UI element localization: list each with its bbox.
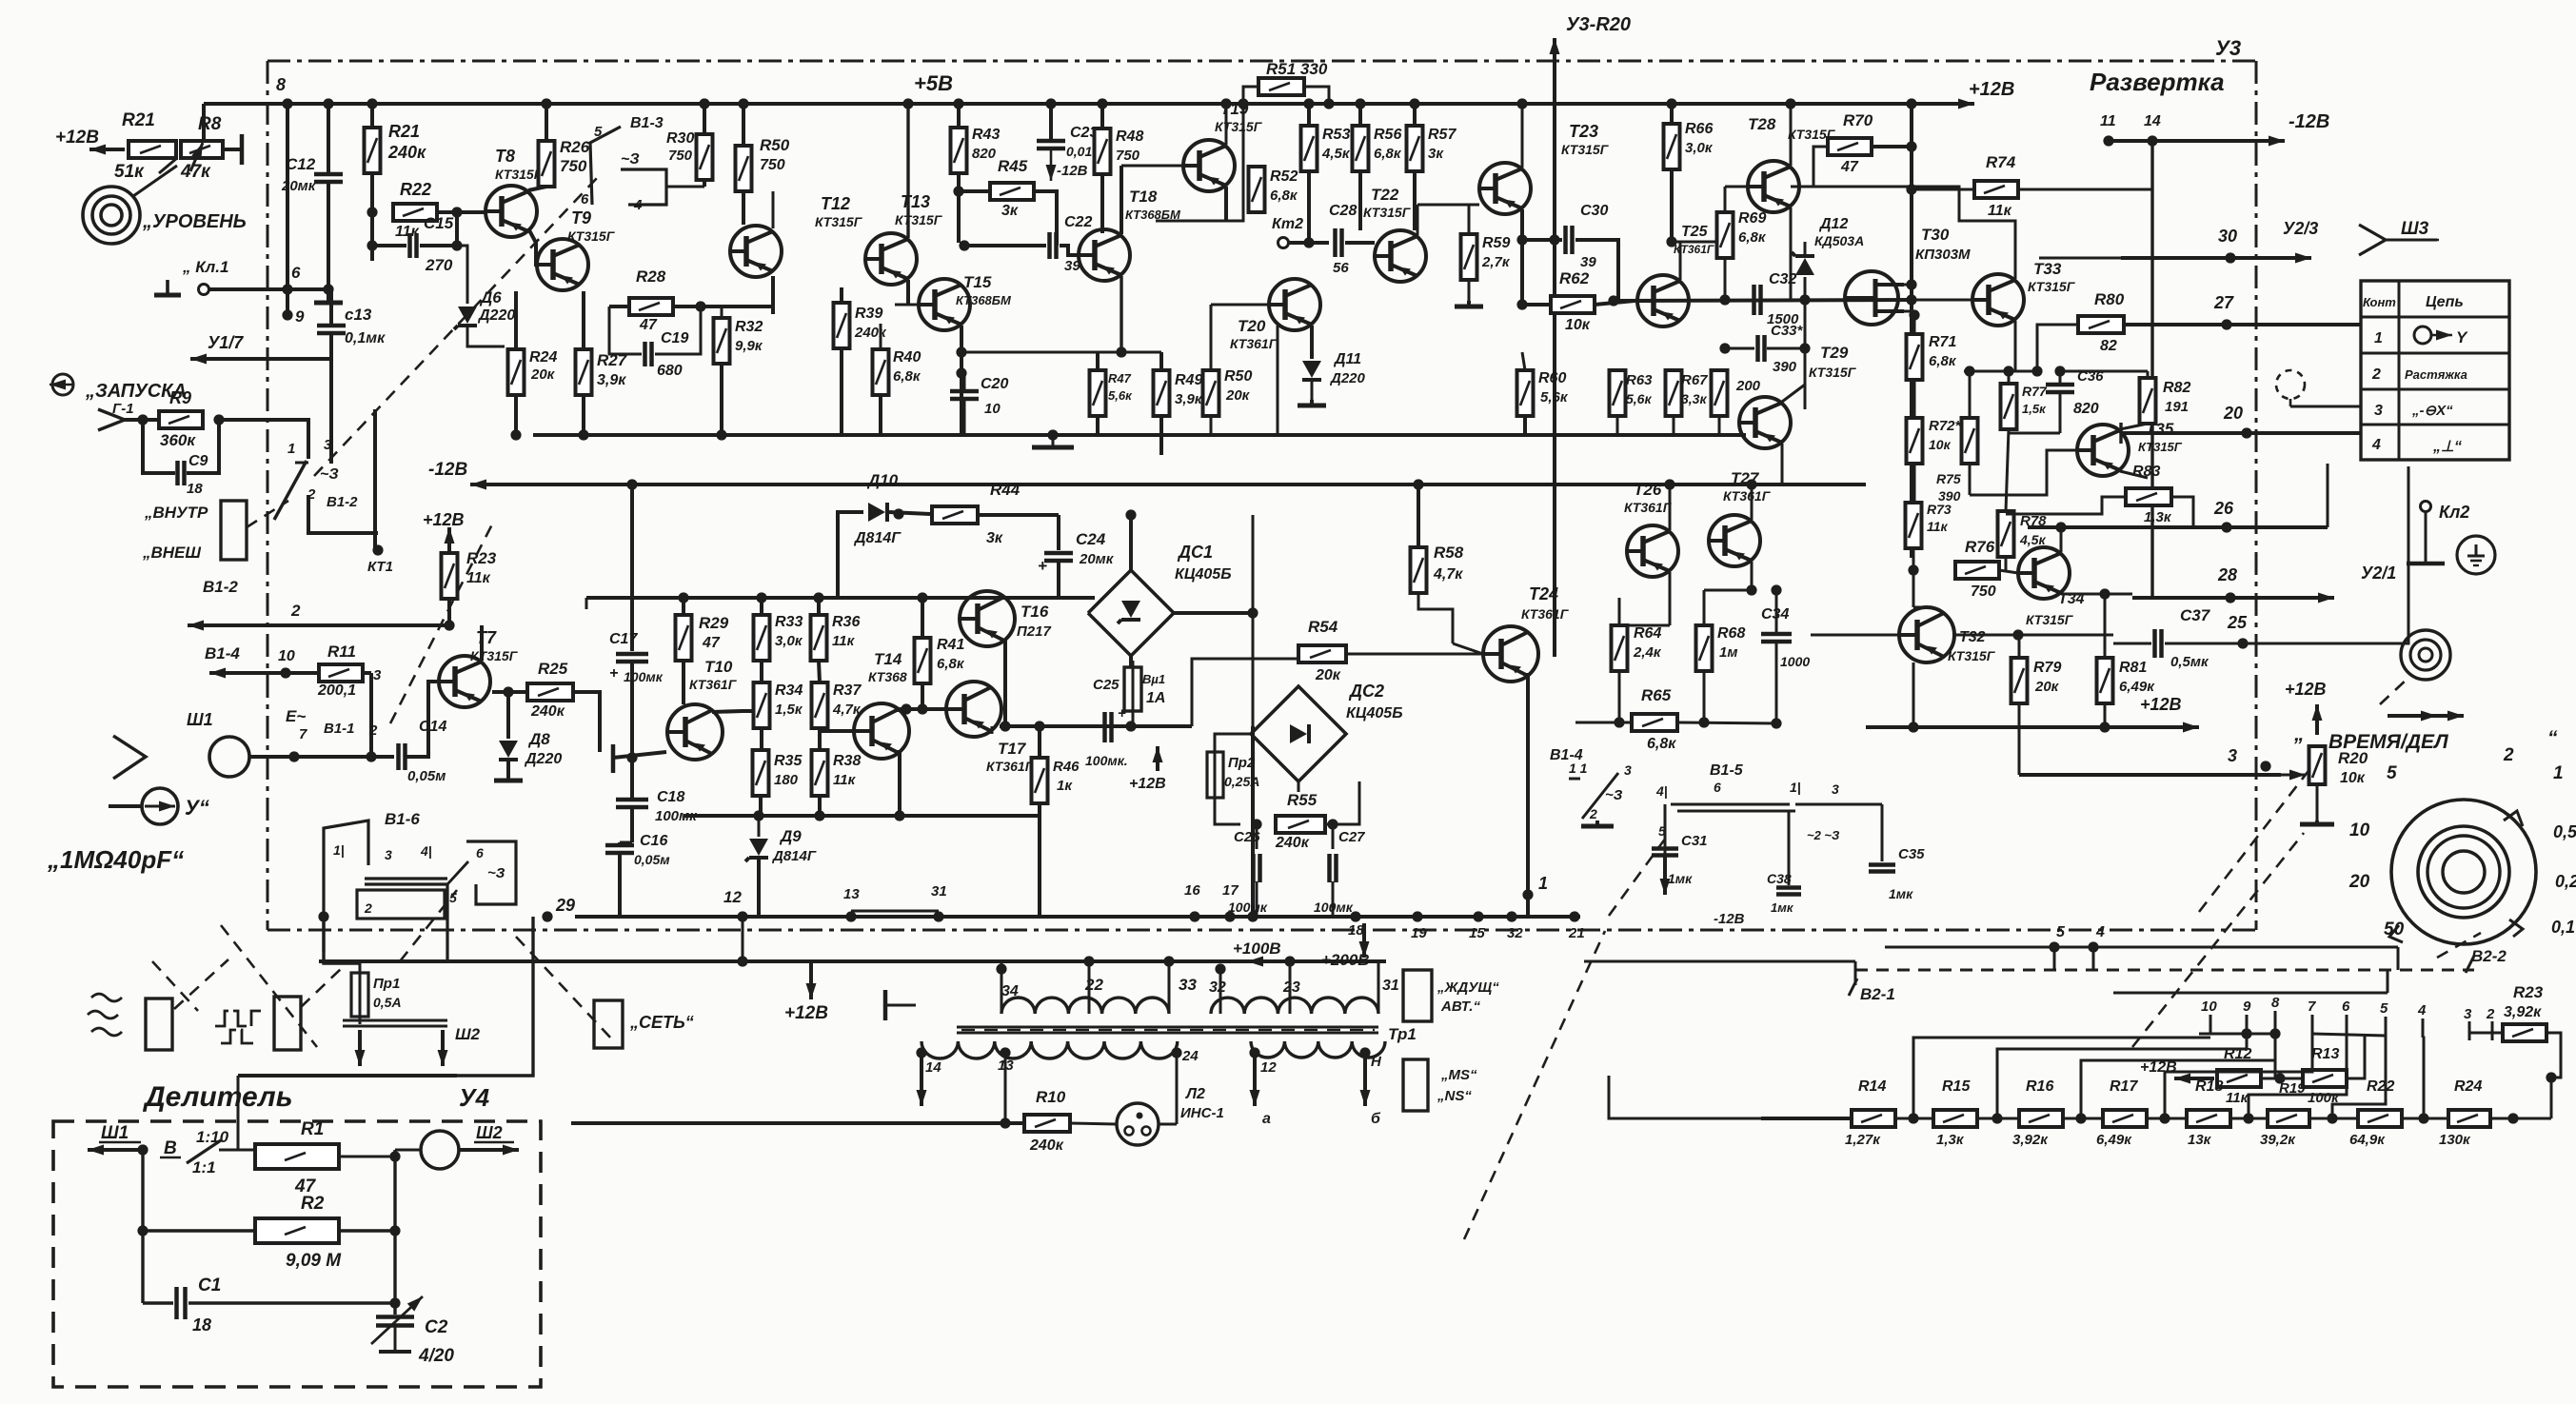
svg-text:Т26: Т26: [1634, 481, 1662, 499]
node: [1906, 279, 1916, 289]
svg-text:130к: 130к: [2439, 1132, 2471, 1148]
node: [2075, 1113, 2086, 1123]
wire R83 right: [2171, 497, 2193, 527]
svg-text:4,7к: 4,7к: [1433, 566, 1463, 583]
node: [503, 686, 513, 697]
wire R41 dn: [921, 683, 924, 709]
svg-text:Развертка: Развертка: [2090, 68, 2225, 96]
resistor R79: [2011, 658, 2028, 703]
svg-text:1,5к: 1,5к: [2022, 402, 2047, 416]
node: [1045, 98, 1056, 109]
wire D11 dn: [1311, 381, 1314, 400]
svg-text:R65: R65: [1641, 686, 1672, 704]
svg-text:0,5: 0,5: [2553, 822, 2576, 841]
svg-text:820: 820: [2073, 401, 2099, 417]
svg-text:с13: с13: [345, 306, 372, 324]
wire node row y963: [575, 915, 1580, 919]
wire T26 emit dn: [1669, 572, 1672, 625]
transistor T7: [439, 656, 490, 707]
svg-text:3к: 3к: [986, 530, 1003, 546]
wire C26 up: [1256, 824, 1258, 849]
capacitor C23: [1037, 141, 1065, 148]
wire T7 emit to R25: [492, 690, 527, 694]
dashed diag b15: [1464, 931, 1605, 1239]
resistor R82: [2140, 378, 2156, 424]
wire R1 left: [254, 1150, 257, 1157]
resistor R45: [990, 183, 1034, 200]
wire R78 dn: [2005, 557, 2008, 570]
svg-text:R79: R79: [2033, 660, 2061, 676]
resistor R54: [1298, 645, 1346, 662]
svg-text:R50: R50: [1224, 368, 1252, 385]
wire C33 loop: [1725, 347, 1754, 350]
svg-text:17: 17: [1222, 882, 1238, 899]
node 29: [542, 911, 552, 921]
svg-text:У2/3: У2/3: [2283, 219, 2318, 238]
node: [1125, 509, 1136, 520]
wire R57 dn: [1413, 171, 1417, 230]
svg-text:С16: С16: [640, 833, 667, 849]
svg-text:5: 5: [594, 124, 603, 140]
svg-text:R30: R30: [666, 130, 694, 147]
svg-text:-12В: -12В: [428, 460, 467, 480]
svg-text:Т28: Т28: [1748, 115, 1776, 133]
svg-text:R38: R38: [833, 753, 861, 769]
svg-text:20мк: 20мк: [281, 178, 317, 194]
box left2: [274, 997, 301, 1050]
wire tap34: [1001, 963, 1003, 1014]
arrow +12V r764: [2132, 722, 2199, 733]
resistor R64: [1612, 625, 1628, 671]
svg-text:6: 6: [2342, 999, 2350, 1015]
node: [280, 667, 290, 678]
svg-text:100мк: 100мк: [624, 669, 664, 684]
svg-text:R15: R15: [1942, 1078, 1971, 1095]
node: [1000, 1047, 1010, 1058]
wire R65 left: [1575, 722, 1632, 724]
svg-text:4: 4: [633, 197, 643, 213]
node: [1125, 721, 1136, 731]
svg-text:Т12: Т12: [821, 194, 850, 213]
resistor chain R14: [1852, 1110, 1895, 1127]
diode D11: [1302, 361, 1321, 380]
node KT1: [372, 544, 383, 555]
svg-text:3: 3: [1624, 762, 1632, 778]
wire T26 coll up: [1669, 484, 1672, 530]
svg-text:а: а: [1262, 1111, 1271, 1127]
arrow U1/7: [190, 354, 331, 365]
node: [2012, 629, 2023, 640]
svg-text:+12В: +12В: [423, 510, 465, 529]
wire c16 dn: [618, 854, 622, 917]
svg-text:В2-1: В2-1: [1860, 985, 1895, 1003]
wire T12 emit join: [772, 276, 775, 307]
wire T7 collector up: [480, 625, 484, 661]
svg-text:КТ368: КТ368: [868, 669, 907, 684]
svg-text:R26: R26: [560, 138, 590, 156]
capacitor C2 var: [371, 1296, 423, 1344]
wire KT1 col: [373, 409, 377, 550]
svg-text:51к: 51к: [114, 162, 145, 182]
wire b15 v1: [1664, 804, 1667, 861]
dashed diag rotary: [2199, 767, 2311, 912]
wire Pr2 dn: [1215, 805, 1240, 824]
resistor R56: [1353, 126, 1369, 171]
core hatch: [961, 1029, 1375, 1031]
arrow +12V R20: [2312, 704, 2323, 735]
tick p4: [2422, 1018, 2425, 1038]
svg-text:С22: С22: [1064, 214, 1092, 230]
rotary notch1: [2504, 811, 2523, 826]
wire C20 dn: [963, 400, 966, 435]
transistor T8: [485, 186, 537, 237]
wire R48 dn: [1100, 174, 1104, 233]
svg-text:11к: 11к: [833, 772, 857, 788]
rotary mid: [2418, 826, 2509, 918]
wire DS1 bottom: [1129, 656, 1133, 667]
wire row315: [1614, 300, 1912, 301]
wire -12V branch: [2150, 141, 2153, 598]
node: [2099, 588, 2110, 599]
svg-text:4|: 4|: [420, 843, 432, 859]
resistor R71: [1907, 334, 1923, 380]
wire R28 right: [673, 305, 773, 308]
svg-text:11к: 11к: [1988, 203, 2012, 219]
svg-text:50: 50: [2384, 920, 2405, 939]
svg-text:R25: R25: [538, 660, 568, 678]
svg-text:У1/7: У1/7: [208, 333, 244, 352]
capacitor C14: [399, 743, 406, 770]
svg-text:5,6к: 5,6к: [1108, 388, 1133, 403]
node: [1771, 584, 1781, 595]
svg-text:КТ315Г: КТ315Г: [2028, 279, 2076, 294]
node: [1189, 911, 1199, 921]
svg-text:R71: R71: [1929, 334, 1956, 350]
wire R36-R37: [819, 661, 820, 682]
svg-text:2,4к: 2,4к: [1633, 644, 1662, 661]
dashed diag B1-6: [400, 890, 457, 961]
wire step1: [324, 917, 360, 963]
svg-text:Пр2: Пр2: [1228, 755, 1256, 771]
node: [1355, 98, 1365, 109]
rotary notch2: [2509, 920, 2523, 937]
wire C34 up: [1775, 590, 1778, 633]
arrow +12V left: [89, 145, 125, 155]
connector LEVEL outer: [83, 187, 140, 244]
switch B1-4 arm: [1582, 773, 1618, 819]
node: [2241, 1028, 2251, 1038]
dashed diag b14: [1609, 838, 1666, 916]
wire base T8: [457, 210, 485, 214]
wire R80 right: [2124, 323, 2361, 326]
wire left entry: [1609, 1076, 1742, 1118]
resistor R58: [1411, 547, 1427, 593]
svg-text:ДС1: ДС1: [1177, 543, 1213, 562]
wire C24 dn: [1057, 562, 1060, 598]
wire R65 right: [1677, 722, 1776, 723]
svg-text:КТ315Г: КТ315Г: [895, 212, 943, 227]
wire R68 dn: [1703, 671, 1706, 722]
wire tap23: [1289, 961, 1292, 1014]
transistor T10: [667, 704, 723, 760]
transistor T15: [919, 279, 970, 330]
svg-text:„NS“: „NS“: [1437, 1088, 1472, 1104]
svg-text:24: 24: [1181, 1048, 1199, 1064]
svg-text:+12В: +12В: [784, 1003, 828, 1023]
svg-text:200,1: 200,1: [317, 682, 356, 699]
wire T27 coll up: [1751, 484, 1754, 520]
svg-text:У3: У3: [2215, 36, 2241, 60]
switch B1-6 bus top: [365, 877, 447, 880]
thick arrow: [2388, 711, 2464, 722]
svg-text:Д220: Д220: [1329, 370, 1366, 386]
svg-text:2: 2: [2486, 1006, 2495, 1022]
wire 30 arrow: [2121, 253, 2311, 264]
wire pin bus1: [2199, 1033, 2275, 1036]
svg-text:3: 3: [1832, 781, 1839, 797]
wire 26 row: [2028, 525, 2328, 529]
frame bottom border: [268, 929, 2256, 932]
arrow +200V dn: [1359, 923, 1370, 958]
svg-text:КТ315Г: КТ315Г: [1561, 142, 1610, 157]
svg-text:R23: R23: [2513, 983, 2544, 1001]
wire D6 up: [457, 246, 467, 304]
node: [737, 956, 747, 966]
svg-text:Д9: Д9: [779, 827, 802, 845]
wire D8 dn: [506, 761, 510, 773]
wire 25 cont: [2247, 466, 2408, 643]
wire T13 coll up: [906, 104, 909, 238]
resistor R47: [1090, 370, 1106, 416]
transistor T18: [1079, 229, 1130, 281]
svg-text:С18: С18: [657, 789, 684, 805]
wire R77-R78: [2006, 429, 2009, 511]
wire C19 loop: [609, 307, 642, 354]
svg-text:Д12: Д12: [1818, 216, 1848, 232]
wire 3 row: [2019, 773, 2281, 777]
core line 2: [957, 1032, 1378, 1035]
transistor T24: [1483, 626, 1538, 682]
svg-text:R11: R11: [327, 643, 356, 661]
dashed diag bl3: [152, 961, 198, 1011]
svg-text:9: 9: [295, 307, 305, 326]
svg-text:Т16: Т16: [1020, 603, 1049, 621]
node 8: [282, 98, 292, 109]
resistor R39: [834, 303, 850, 348]
svg-text:1: 1: [1538, 874, 1548, 893]
wire R23 left: [2469, 1033, 2503, 1040]
svg-text:47: 47: [702, 635, 721, 651]
svg-text:Конт: Конт: [2363, 295, 2396, 309]
node: [1506, 911, 1516, 921]
arrow B1-4: [209, 668, 317, 679]
wire R37-R38: [818, 728, 822, 750]
capacitor C9: [178, 461, 185, 485]
resistor R70: [1828, 138, 1872, 155]
wire T15 emit dn: [960, 326, 963, 435]
wire b15 h1: [1671, 803, 1790, 806]
svg-text:11к: 11к: [832, 633, 856, 649]
svg-text:С32: С32: [1769, 271, 1796, 287]
node: [367, 240, 377, 250]
node: [2418, 1113, 2428, 1123]
resistor R2: [255, 1218, 339, 1243]
wire D9 dn: [757, 859, 761, 917]
wire C34 dn: [1775, 643, 1778, 723]
svg-text:3: 3: [2228, 746, 2237, 765]
svg-text:ДС2: ДС2: [1348, 682, 1384, 701]
transistor T9: [537, 239, 588, 290]
svg-text:R39: R39: [855, 306, 882, 322]
svg-text:820: 820: [972, 146, 997, 162]
node: [1964, 366, 1974, 376]
wire lamp right: [1159, 1123, 1177, 1126]
svg-text:33: 33: [1179, 976, 1197, 994]
wire C30 left: [1522, 238, 1562, 242]
arrow node2: [188, 621, 449, 631]
tick p5: [2385, 1017, 2388, 1036]
wire y763 main: [1000, 724, 1192, 728]
node: [1516, 234, 1527, 245]
svg-text:4,5к: 4,5к: [2019, 532, 2046, 547]
node: [1284, 956, 1295, 966]
wire chain j3: [2063, 1117, 2103, 1120]
node: [451, 207, 462, 217]
wire T19 emit dn: [1224, 187, 1228, 221]
svg-text:3: 3: [373, 667, 382, 683]
wire common bus y457: [533, 433, 1746, 437]
wire fuse dn: [1132, 711, 1135, 726]
wire dc: [2290, 405, 2361, 408]
switch B1-2 pin1 tick: [295, 462, 308, 465]
svg-text:240к: 240к: [1029, 1137, 1064, 1154]
svg-text:R21: R21: [388, 122, 420, 141]
switch delitel arm: [187, 1140, 221, 1163]
node: [1608, 295, 1618, 306]
capacitor C16: [605, 845, 634, 853]
svg-text:R24: R24: [2454, 1078, 2482, 1095]
node: [2103, 135, 2113, 146]
wire 12 dn: [742, 917, 744, 961]
wire T10 emit: [613, 752, 666, 758]
svg-text:14: 14: [925, 1059, 941, 1076]
svg-text:С30: С30: [1580, 203, 1608, 219]
svg-text:КТ361Г: КТ361Г: [689, 677, 738, 692]
svg-text:Ш2: Ш2: [476, 1123, 503, 1142]
node: [137, 414, 148, 425]
node: [1906, 141, 1916, 151]
wire b15 v3: [1881, 804, 1884, 861]
resistor R8 pot: [181, 141, 223, 158]
wire R66 dn: [1670, 169, 1674, 242]
wire chain j5: [2230, 1117, 2268, 1120]
resistor R66: [1664, 124, 1680, 169]
svg-text:240к: 240к: [1275, 835, 1310, 851]
arrow 28: [2132, 593, 2334, 603]
svg-text:2: 2: [2371, 366, 2381, 383]
wire R64 up: [1618, 598, 1621, 625]
wire R56 dn: [1358, 171, 1362, 230]
ground R59: [1455, 301, 1483, 307]
diode D10: [868, 503, 887, 522]
svg-text:Е~: Е~: [286, 707, 306, 725]
wire R59 up: [1468, 205, 1471, 234]
node 9 stub: [286, 289, 289, 315]
wire C15 right: [420, 244, 457, 247]
svg-text:R35: R35: [774, 753, 803, 769]
svg-text:8: 8: [276, 75, 286, 94]
node: [1359, 1047, 1370, 1058]
svg-text:R52: R52: [1270, 168, 1298, 185]
node: [1171, 1047, 1181, 1058]
svg-text:3: 3: [2464, 1006, 2472, 1022]
node: [1034, 721, 1044, 731]
wire T29 coll: [1782, 385, 1805, 402]
wire R23 right: [2546, 1033, 2561, 1078]
svg-text:С24: С24: [1076, 530, 1106, 548]
wire R58 up: [1417, 484, 1420, 547]
svg-text:R57: R57: [1428, 127, 1456, 143]
stair 2: [1997, 1034, 2247, 1118]
wire R47 up: [1096, 352, 1100, 370]
node: [956, 346, 966, 357]
wire R49 up: [1159, 352, 1163, 370]
wire R74 right: [2018, 188, 2152, 191]
wire R82 up: [2147, 371, 2150, 378]
diode D8: [499, 741, 518, 760]
wire tap24 dn: [1176, 1053, 1179, 1124]
wire R45 left: [959, 189, 990, 193]
node: [318, 911, 328, 921]
dashed diag B1-1: [390, 519, 495, 723]
wire T33 coll up: [1813, 187, 2015, 279]
resistor R49: [1154, 370, 1170, 416]
svg-text:R1: R1: [301, 1119, 324, 1139]
resistor R13: [2303, 1070, 2347, 1087]
wire y745 local: [899, 707, 948, 711]
tick p10: [2209, 1015, 2212, 1034]
resistor chain R19: [2268, 1110, 2309, 1127]
wire T8 emitter to T9: [529, 230, 550, 265]
svg-text:КЦ405Б: КЦ405Б: [1346, 705, 1403, 722]
svg-text:R17: R17: [2110, 1078, 2138, 1095]
svg-text:-12В: -12В: [2289, 111, 2329, 132]
wire C22 left: [964, 244, 1046, 247]
switch B1-6 arm: [447, 861, 468, 884]
svg-text:R66: R66: [1685, 121, 1713, 137]
svg-text:У2/1: У2/1: [2361, 564, 2396, 583]
wire C37 right: [2165, 643, 2247, 645]
dashed leader: [174, 959, 228, 1009]
wire T32 base row: [1954, 634, 2113, 637]
wire Y left: [109, 804, 142, 808]
svg-text:С1: С1: [198, 1275, 221, 1295]
wire R83 left: [2006, 497, 2126, 514]
svg-text:R50: R50: [760, 136, 790, 154]
wire R60 up: [1522, 352, 1525, 370]
node: [956, 367, 966, 378]
resistor R83: [2126, 488, 2171, 505]
svg-text:2,7к: 2,7к: [1481, 254, 1511, 270]
wire T33 base: [1912, 299, 1972, 302]
svg-text:R16: R16: [2026, 1078, 2053, 1095]
wire T35 emit: [2120, 471, 2148, 478]
arrow -12V dn: [1046, 150, 1057, 181]
svg-text:Т35: Т35: [2146, 420, 2174, 438]
svg-text:С27: С27: [1338, 829, 1365, 845]
wire tap33: [1168, 961, 1171, 1014]
node: [1666, 98, 1676, 109]
